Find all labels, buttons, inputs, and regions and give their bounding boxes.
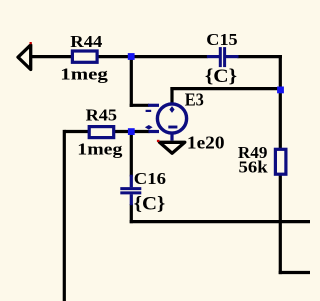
wire <box>131 130 149 133</box>
svg-text:{C}: {C} <box>134 193 166 214</box>
svg-text:1e20: 1e20 <box>187 133 225 153</box>
C16 label <box>134 169 166 188</box>
svg-text:1meg: 1meg <box>60 65 108 84</box>
resistor R44 <box>72 51 97 62</box>
wire <box>115 130 131 133</box>
svg-text:1meg: 1meg <box>77 140 123 158</box>
junction <box>128 128 135 135</box>
junction <box>277 87 284 94</box>
svg-text:C16: C16 <box>134 169 166 188</box>
junction <box>128 53 135 60</box>
svg-text:56k: 56k <box>239 157 268 176</box>
E3 label <box>185 90 205 110</box>
svg-text:E3: E3 <box>185 90 205 110</box>
capacitor C16 <box>120 175 141 205</box>
R45 value 1meg <box>77 140 123 158</box>
wire <box>170 87 280 90</box>
wire <box>130 220 310 223</box>
wire <box>279 175 282 275</box>
ground <box>160 142 185 153</box>
svg-text:C15: C15 <box>206 30 238 49</box>
wire <box>64 130 88 133</box>
VCVS E3 <box>145 104 187 141</box>
E3 value 1e20 <box>187 133 225 153</box>
svg-text:{C}: {C} <box>205 66 237 87</box>
wire <box>238 55 282 58</box>
port arrow IN <box>18 45 31 70</box>
wire <box>98 55 208 58</box>
R44 label <box>70 32 102 51</box>
wire <box>130 57 133 107</box>
R45 label <box>86 105 118 124</box>
capacitor C15 <box>207 47 239 67</box>
wire <box>63 130 66 301</box>
svg-text:R45: R45 <box>86 105 118 124</box>
wire <box>130 132 133 177</box>
svg-text:R44: R44 <box>70 32 102 51</box>
wire <box>170 87 173 104</box>
wire <box>130 104 149 107</box>
R49 value 56k <box>239 157 268 176</box>
R44 value 1meg <box>60 65 108 84</box>
C15 label <box>206 30 238 49</box>
wire <box>279 271 310 274</box>
port pin marker <box>30 42 32 44</box>
C16 value {C} <box>134 193 166 214</box>
resistor R49 <box>275 149 286 174</box>
R49 label <box>238 143 267 162</box>
wire <box>31 55 72 58</box>
wire <box>130 204 133 223</box>
wire <box>279 55 282 149</box>
ground pin marker <box>157 140 160 142</box>
C15 value {C} <box>205 66 237 87</box>
resistor R45 <box>89 127 114 138</box>
